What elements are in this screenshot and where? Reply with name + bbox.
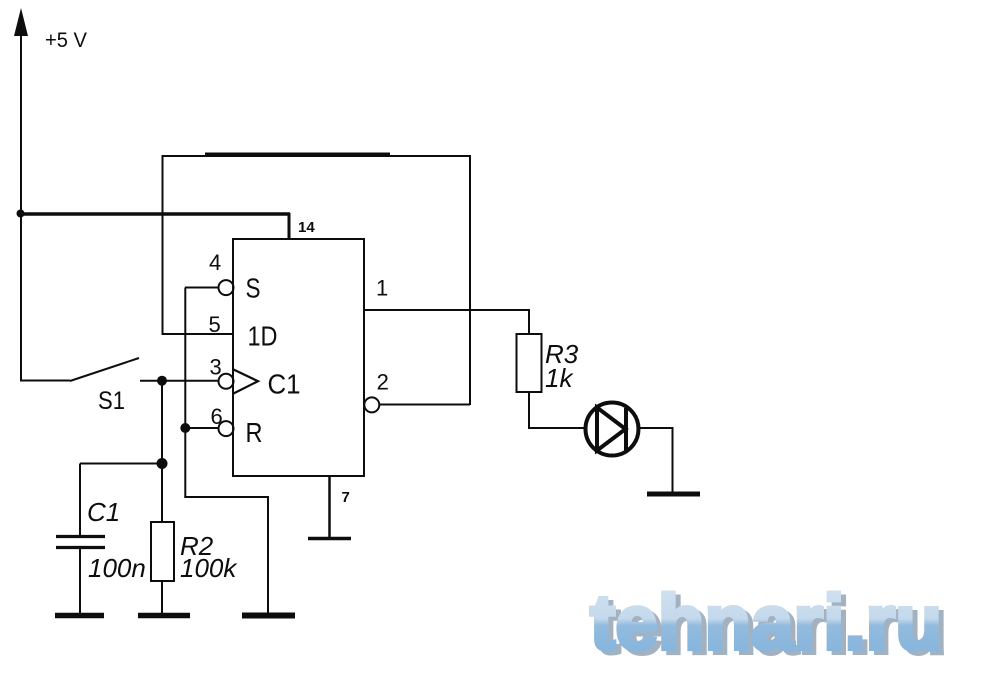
clock edge triangle [234, 370, 259, 394]
wire: R3 top lead [528, 309, 530, 334]
svg-text:C1: C1 [87, 497, 120, 527]
wire: +5V rail vertical [20, 28, 22, 381]
S/R ground rail vertical [184, 288, 186, 498]
svg-text:100n: 100n [88, 553, 146, 583]
pin 2 bubble [364, 397, 379, 412]
feedback loop left vertical to 1D [162, 155, 164, 334]
switch S1 left wire [20, 380, 70, 382]
svg-text:+5 V: +5 V [45, 29, 87, 52]
LED D1 triangle [597, 408, 626, 451]
ground symbol S/R rail [242, 613, 295, 619]
pin 1 output wire [364, 309, 529, 311]
wire: pin 14 vertical drop [288, 213, 291, 240]
wire: +5V feed to IC pin 14 [20, 212, 290, 216]
svg-text:S: S [246, 273, 261, 304]
wire: switch to clock pin [140, 380, 218, 382]
svg-text:1D: 1D [248, 321, 278, 352]
+5V supply arrow [14, 8, 28, 36]
wire: R3 to LED [529, 392, 584, 428]
svg-text:14: 14 [298, 219, 315, 236]
pin 6 bubble [219, 421, 234, 436]
pin 3 bubble [219, 374, 234, 389]
ground bar pin 7 [308, 537, 351, 541]
switch S1 blade [70, 358, 139, 381]
LED D1 cathode bar [624, 408, 628, 451]
wire: C1 top lead [79, 464, 81, 536]
svg-text:R: R [246, 417, 263, 448]
svg-text:S1: S1 [98, 387, 125, 415]
svg-text:tehnari.ru: tehnari.ru [590, 578, 942, 666]
junction node on +5V rail [17, 210, 25, 218]
svg-text:100k: 100k [180, 553, 238, 583]
wire: R pin stub [186, 427, 218, 429]
wire: ground rail jog horizontal [184, 496, 268, 498]
wire: RC node to C1 [80, 463, 162, 465]
wire: IC pin 7 ground lead [328, 476, 331, 539]
junction node RC [157, 458, 168, 469]
feedback loop right vertical [469, 155, 471, 405]
LED D1 circle [586, 403, 639, 456]
junction node on R stub [180, 423, 190, 433]
wire: C1 bottom lead [79, 549, 81, 614]
wire: LED to ground [639, 428, 673, 494]
resistor R3 body [517, 334, 542, 392]
svg-text:3: 3 [210, 355, 222, 380]
svg-text:1: 1 [376, 276, 388, 301]
resistor R2 body [151, 522, 174, 581]
svg-text:7: 7 [342, 489, 350, 506]
capacitor C1 top plate [56, 535, 105, 538]
IC U1 D flip-flop body [233, 239, 364, 476]
feedback loop top wire thick overlay [205, 153, 390, 156]
svg-text:5: 5 [209, 312, 221, 337]
wire: ground rail drop [267, 496, 269, 613]
svg-text:4: 4 [209, 250, 221, 275]
svg-text:1k: 1k [545, 363, 574, 393]
wire: junction to RC node [161, 381, 163, 464]
ground symbol LED [647, 492, 700, 497]
svg-text:6: 6 [211, 404, 223, 429]
wire: pin 2 to feedback loop [379, 404, 471, 406]
ground symbol R2 [138, 613, 190, 619]
feedback loop top wire [162, 155, 471, 157]
wire: R2 top lead [161, 464, 163, 523]
capacitor C1 bottom plate [56, 546, 105, 549]
pin 4 bubble [219, 280, 234, 295]
wire: S pin stub [185, 287, 218, 289]
ground symbol C1 [55, 613, 104, 619]
wire: 1D input pin 5 [162, 333, 234, 335]
wire: R2 bottom lead [161, 581, 163, 614]
junction node at switch output [157, 376, 167, 386]
svg-text:C1: C1 [268, 368, 301, 399]
svg-text:2: 2 [377, 370, 389, 395]
